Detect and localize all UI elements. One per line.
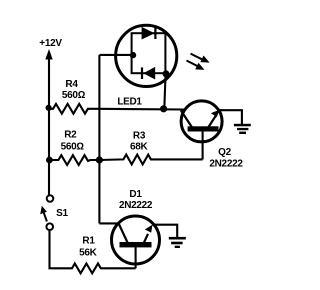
svg-text:2N2222: 2N2222 — [119, 200, 153, 211]
switch S1 arm with arrowhead — [44, 213, 47, 222]
wire: middle vertical rail — [98, 55, 100, 223]
LED1 inner rectangle bus — [132, 33, 166, 73]
node: LED1 left bus dot — [130, 52, 136, 58]
node: rail/R4 junction dot — [46, 105, 52, 111]
svg-text:R2: R2 — [64, 130, 77, 141]
svg-text:2N2222: 2N2222 — [209, 159, 243, 170]
LED1 emission arrow upper — [191, 54, 204, 60]
transistor Q2 base bar — [188, 126, 219, 131]
wire: D1 base stem — [135, 247, 137, 268]
svg-text:R3: R3 — [133, 130, 146, 141]
LED1 emission arrow lower — [187, 61, 199, 67]
wire: Q2 base stem — [202, 131, 204, 159]
svg-text:+12V: +12V — [39, 38, 62, 49]
switch S1 top terminal — [47, 195, 54, 202]
transistor-diode D1 base bar — [120, 242, 152, 247]
node: rail/R2 junction dot — [46, 157, 53, 164]
svg-text:560Ω: 560Ω — [62, 90, 86, 101]
ground (Q2 emitter) — [234, 124, 251, 127]
LED1 circle — [116, 25, 177, 86]
svg-text:R1: R1 — [82, 235, 95, 246]
svg-text:Q2: Q2 — [218, 147, 231, 158]
wire: D1 collector from middle rail — [99, 222, 120, 224]
svg-text:68K: 68K — [130, 141, 149, 152]
wire: S1 to bottom corner — [50, 230, 72, 268]
wire: D1 emitter to ground — [152, 225, 177, 238]
svg-text:LED1: LED1 — [117, 96, 142, 107]
wire: LED1 left lead — [99, 54, 133, 56]
resistor R2 zigzag — [49, 155, 99, 165]
transistor-diode D1 collector lead — [119, 223, 128, 242]
node: LED1 bottom-right dot — [163, 70, 170, 77]
resistor R3 zigzag — [99, 155, 202, 165]
node: LED1 right lead joins collector wire — [160, 105, 167, 112]
resistor R1 zigzag — [71, 264, 136, 274]
transistor Q2 circle — [181, 101, 222, 142]
ground (D1 emitter) — [169, 237, 186, 240]
transistor-diode D1 circle — [112, 216, 160, 264]
LED1 top diode (pointing right) — [142, 27, 155, 40]
svg-text:560Ω: 560Ω — [61, 141, 85, 152]
transistor Q2 collector lead — [181, 111, 192, 128]
resistor R4 zigzag — [49, 104, 99, 114]
wire: R4 to Q2 collector — [99, 108, 184, 111]
+12V supply arrow — [45, 49, 52, 60]
node: R2/R3 junction dot — [96, 156, 103, 163]
svg-text:D1: D1 — [129, 189, 142, 200]
switch S1 bottom terminal — [46, 223, 53, 230]
svg-text:S1: S1 — [56, 208, 68, 219]
wire: Q2 emitter to ground — [220, 110, 242, 124]
svg-text:R4: R4 — [65, 79, 78, 90]
transistor Q2 emitter lead with arrow — [209, 116, 216, 127]
svg-text:56K: 56K — [79, 248, 98, 259]
transistor-diode D1 emitter lead with arrow — [144, 234, 148, 243]
LED1 bottom diode (pointing left) — [143, 67, 155, 80]
wire: LED1 right lead down — [164, 73, 165, 109]
